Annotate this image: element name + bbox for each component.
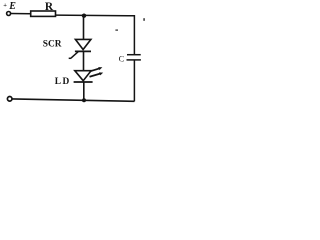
svg-text:C: C <box>119 54 125 63</box>
SCR thyristor <box>69 39 91 58</box>
terminal bottom-left <box>7 97 12 102</box>
svg-text:R: R <box>45 1 54 13</box>
wire right branch bottom <box>133 60 135 101</box>
node junction bottom <box>82 98 86 102</box>
resistor R <box>31 11 56 16</box>
svg-text:E: E <box>8 1 16 12</box>
svg-text:LD: LD <box>55 77 71 87</box>
svg-text:SCR: SCR <box>43 40 62 50</box>
terminal top-left <box>7 12 11 16</box>
capacitor C <box>127 55 141 60</box>
wire right branch top <box>133 16 135 55</box>
wire bottom <box>12 99 134 101</box>
speck artifact <box>115 30 118 31</box>
wire LED cathode lead <box>83 82 85 100</box>
svg-text:+: + <box>3 2 7 9</box>
speck artifact right edge <box>143 18 145 21</box>
wire top-right <box>56 14 135 17</box>
wire top-left <box>11 13 31 15</box>
LED LD <box>74 67 104 82</box>
wire SCR-LED <box>83 51 85 70</box>
wire SCR anode lead <box>83 16 85 40</box>
node junction top <box>82 14 86 18</box>
